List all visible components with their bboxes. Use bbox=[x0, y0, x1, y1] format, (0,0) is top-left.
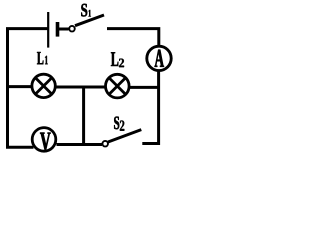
voltmeter V circle bbox=[32, 128, 56, 152]
switch S1 lever bbox=[75, 15, 104, 26]
label S2 subscript 2 bbox=[120, 121, 124, 131]
wire: S1 fixed contact to top-right corner, down to ammeter bbox=[107, 29, 159, 46]
wire: ammeter bottom down to bottom-right corner, left to S2 contact bbox=[142, 71, 158, 144]
wire: middle left, from left side to lamp L1 bbox=[6, 85, 32, 88]
switch S1 pivot circle bbox=[69, 26, 75, 32]
lamp L2 cross stroke 1 bbox=[109, 78, 125, 94]
label S1 subscript 1 bbox=[89, 10, 91, 17]
lamp L1 cross stroke 2 bbox=[35, 78, 51, 94]
voltmeter letter V bbox=[40, 133, 50, 151]
battery short plate (negative) bbox=[56, 22, 60, 37]
switch S2 pivot circle bbox=[102, 141, 108, 147]
switch S2 lever bbox=[108, 130, 141, 142]
wire: junction vertical between L1 and L2 down to bottom wire bbox=[82, 87, 85, 145]
lamp L2 circle bbox=[106, 74, 130, 98]
wire: battery to switch S1 pivot bbox=[59, 28, 69, 31]
lamp L1 circle bbox=[32, 74, 55, 97]
label L1 letter L bbox=[37, 52, 43, 64]
label S2 letter S bbox=[114, 117, 119, 130]
label L2 subscript 2 bbox=[119, 59, 124, 68]
wire: bottom middle, voltmeter to S2 pivot bbox=[57, 143, 103, 146]
wire: top-left, left side, bottom-left run bbox=[8, 29, 49, 148]
label L1 subscript 1 bbox=[45, 56, 48, 64]
lamp L2 cross stroke 2 bbox=[109, 78, 125, 94]
lamp L1 cross stroke 1 bbox=[35, 78, 51, 94]
battery long plate (positive) bbox=[47, 12, 49, 48]
label L2 letter L bbox=[111, 52, 118, 66]
ammeter U1 circle bbox=[147, 46, 171, 70]
wire: lamp L2 right to ammeter branch bbox=[130, 86, 159, 89]
wire: middle, between lamp L1 and lamp L2 bbox=[56, 86, 106, 89]
label S1 letter S bbox=[81, 4, 87, 17]
ammeter letter A bbox=[155, 50, 164, 67]
